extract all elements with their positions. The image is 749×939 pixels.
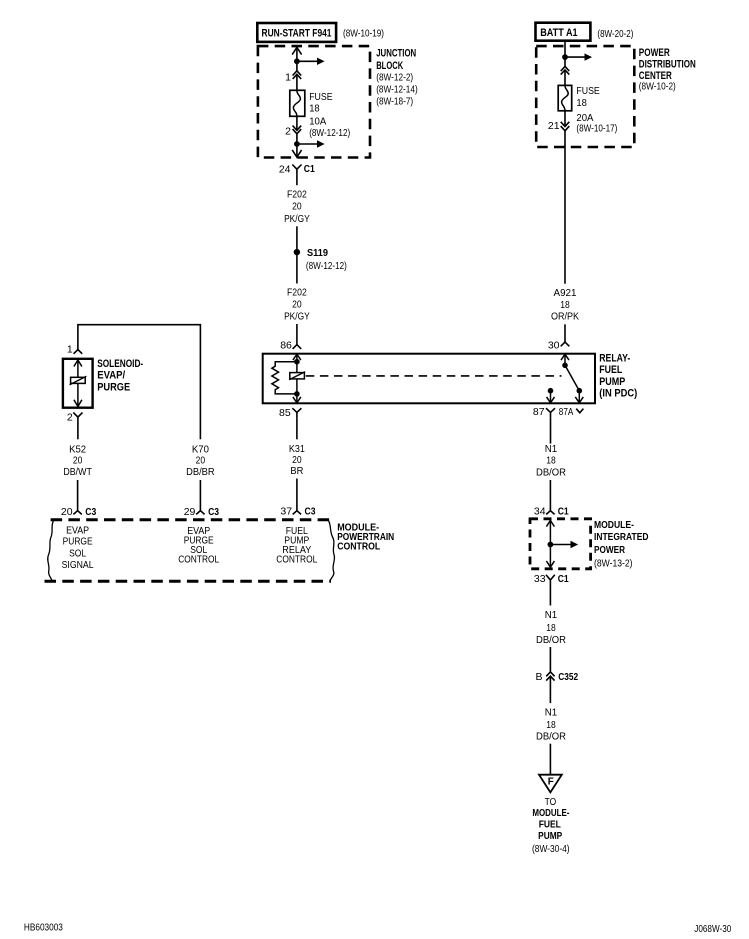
node FUEL PUMP RELAY CONTROL (276, 525, 317, 566)
svg-text:20: 20 (292, 201, 302, 213)
MIP arrow right (bus feed) (550, 541, 578, 548)
pin 37 / connector C3 (280, 505, 315, 517)
wire label K31 20 BR (289, 443, 305, 477)
wire (549, 744, 551, 775)
svg-text:24: 24 (279, 163, 291, 175)
svg-text:CONTROL: CONTROL (276, 554, 317, 566)
junction dot (coil bottom) (294, 391, 300, 397)
svg-text:CONTROL: CONTROL (178, 554, 219, 566)
svg-text:PURGE: PURGE (97, 381, 130, 393)
pin 20 / connector C3 (61, 506, 97, 518)
svg-text:87A: 87A (559, 406, 574, 418)
solenoid valve element (70, 376, 87, 385)
connector box RUN-START F941 (257, 23, 336, 42)
svg-text:EVAP/: EVAP/ (97, 370, 125, 382)
PDC dashed box (536, 46, 634, 147)
svg-text:MODULE-: MODULE- (594, 519, 634, 531)
pin 30 (548, 340, 569, 352)
svg-text:(8W-18-7): (8W-18-7) (376, 96, 413, 108)
label MODULE-POWERTRAIN CONTROL (337, 522, 394, 553)
svg-text:18: 18 (309, 103, 320, 115)
pin 34 / connector C1 (534, 506, 569, 518)
svg-text:(8W-12-2): (8W-12-2) (376, 71, 413, 83)
svg-text:20: 20 (292, 299, 302, 311)
svg-text:N1: N1 (545, 609, 558, 621)
fuse body (PDC) (558, 85, 572, 110)
svg-text:1: 1 (285, 72, 291, 84)
fuse value labels (309, 91, 350, 139)
wire (296, 324, 298, 345)
arrow right (bus feed) (565, 53, 592, 60)
svg-text:DB/WT: DB/WT (63, 466, 92, 478)
svg-text:C3: C3 (305, 505, 316, 517)
wire (296, 479, 298, 511)
svg-text:S119: S119 (307, 247, 328, 259)
resistor (relay internal) (272, 362, 297, 394)
label TO MODULE-FUEL PUMP (532, 796, 570, 855)
svg-text:C1: C1 (558, 506, 569, 518)
pin 29 / connector C3 (184, 506, 220, 518)
arrow right (bus feed) (297, 58, 325, 65)
junction dot (562, 54, 568, 60)
svg-text:(8W-30-4): (8W-30-4) (532, 843, 570, 855)
wire (549, 480, 551, 511)
svg-text:(8W-10-17): (8W-10-17) (576, 123, 617, 135)
pin 86 (280, 340, 301, 352)
svg-text:DB/OR: DB/OR (536, 634, 566, 646)
wire (549, 647, 551, 703)
wire (549, 587, 551, 606)
fuse value labels (576, 85, 617, 134)
pin 85 (279, 407, 301, 419)
wire label N1 18 DB/OR (536, 707, 566, 743)
svg-text:RUN-START F941: RUN-START F941 (262, 28, 332, 40)
label POWER DISTRIBUTION CENTER (639, 47, 696, 93)
svg-text:POWER: POWER (639, 47, 670, 59)
svg-text:BR: BR (290, 465, 303, 477)
svg-text:DB/OR: DB/OR (536, 731, 566, 743)
svg-text:2: 2 (67, 412, 73, 424)
wire (199, 480, 201, 511)
wire (296, 226, 298, 252)
svg-text:B: B (535, 671, 542, 683)
svg-text:DISTRIBUTION: DISTRIBUTION (639, 59, 696, 71)
arrow up to JB top edge (292, 47, 301, 61)
svg-text:(8W-10-19): (8W-10-19) (343, 27, 384, 39)
wire from BATT A1 (564, 41, 566, 57)
wire label K52 20 DB/WT (63, 443, 92, 478)
solenoid box (63, 359, 93, 408)
wire label F202 20 PK/GY (284, 189, 310, 225)
svg-text:BATT A1: BATT A1 (540, 27, 577, 39)
svg-text:86: 86 (280, 340, 292, 352)
svg-text:CONTROL: CONTROL (337, 540, 380, 552)
svg-text:PK/GY: PK/GY (284, 213, 310, 225)
pin 1 (solenoid) (67, 343, 82, 355)
svg-text:SIGNAL: SIGNAL (62, 559, 94, 571)
arrow right (bus feed) (297, 140, 325, 147)
svg-text:34: 34 (534, 506, 546, 518)
svg-text:30: 30 (548, 340, 560, 352)
svg-text:SOLENOID-: SOLENOID- (97, 358, 143, 370)
svg-text:C1: C1 (304, 163, 315, 175)
svg-text:N1: N1 (545, 443, 558, 455)
wire label A921 18 OR/PK (551, 287, 579, 323)
svg-text:33: 33 (534, 573, 546, 585)
svg-text:37: 37 (280, 505, 292, 517)
MIP internal: arrow down (546, 545, 554, 568)
entry arrow at pin 30 (561, 354, 569, 365)
arrow down to relay bottom edge (pin 85) (293, 394, 301, 403)
svg-text:20: 20 (196, 455, 206, 467)
svg-text:21: 21 (548, 120, 560, 132)
svg-text:C3: C3 (208, 506, 219, 518)
node EVAP PURGE SOL CONTROL (178, 525, 219, 566)
svg-text:SOL: SOL (69, 548, 86, 560)
label RELAY-FUEL PUMP (IN PDC) (599, 353, 637, 400)
pin 24 / connector C1 (279, 163, 315, 175)
label SOLENOID-EVAP/PURGE (97, 358, 143, 394)
wire (77, 422, 79, 440)
relay coil branch: entry arrow at pin 86 (293, 354, 301, 362)
solenoid internal: arrow up (74, 360, 82, 378)
svg-text:C352: C352 (558, 671, 578, 683)
svg-text:PK/GY: PK/GY (284, 311, 310, 323)
wire below relay pin 87 (550, 418, 552, 444)
svg-text:(IN PDC): (IN PDC) (599, 387, 637, 399)
pin B / connector C352 (in-line chevrons up) (535, 671, 578, 683)
junction dot (coil top) (294, 359, 300, 365)
junction block dashed box (258, 46, 370, 157)
svg-text:1: 1 (67, 343, 73, 355)
node EVAP PURGE SOL SIGNAL (62, 524, 94, 571)
svg-text:F202: F202 (287, 287, 307, 299)
wire (296, 116, 298, 144)
svg-text:MODULE-: MODULE- (532, 807, 569, 819)
svg-text:18: 18 (546, 622, 556, 634)
svg-text:18: 18 (576, 97, 587, 109)
arrow down to relay bottom (87A) (575, 391, 583, 403)
module-integrated power dashed box (530, 519, 591, 569)
label MODULE-INTEGRATED POWER (594, 519, 649, 569)
svg-text:(8W-12-12): (8W-12-12) (309, 127, 350, 139)
87 contact dot (548, 388, 554, 394)
PCM dashed top edge (51, 518, 331, 521)
svg-text:C3: C3 (85, 506, 96, 518)
fuse F941 body (290, 90, 305, 116)
svg-text:K70: K70 (192, 443, 209, 455)
svg-text:29: 29 (184, 506, 196, 518)
wire (77, 480, 79, 511)
svg-text:RELAY-: RELAY- (599, 353, 630, 365)
relay box (263, 354, 595, 404)
wire label N1 18 DB/OR (536, 443, 566, 479)
wire label N1 18 DB/OR (536, 609, 566, 646)
svg-text:FUEL: FUEL (599, 364, 622, 376)
wire (564, 57, 566, 85)
svg-text:F202: F202 (287, 189, 307, 201)
solenoid internal: arrow down (74, 383, 82, 406)
in-line connector chevrons (pin 1, up) (293, 71, 302, 79)
svg-text:(8W-20-2): (8W-20-2) (597, 28, 633, 40)
svg-text:20: 20 (61, 506, 73, 518)
wire label K70 20 DB/BR (186, 443, 215, 478)
svg-text:POWER: POWER (594, 544, 625, 556)
svg-text:N1: N1 (545, 707, 558, 719)
svg-text:BLOCK: BLOCK (376, 60, 403, 72)
svg-text:18: 18 (560, 299, 570, 311)
svg-text:(8W-10-2): (8W-10-2) (639, 81, 676, 93)
PCM dashed bottom edge (45, 580, 332, 583)
svg-text:10A: 10A (309, 116, 326, 128)
switch common dot (562, 363, 568, 369)
off-page connector triangle F (539, 775, 562, 793)
relay coil (289, 362, 305, 394)
svg-text:EVAP: EVAP (66, 524, 89, 536)
pin 33 / connector C1 (534, 573, 569, 587)
connector box BATT A1 (536, 23, 591, 41)
svg-text:J068W-30: J068W-30 (694, 923, 731, 935)
svg-text:INTEGRATED: INTEGRATED (594, 531, 649, 543)
arrow down to JB bottom edge (292, 144, 301, 157)
svg-text:HB603003: HB603003 (24, 921, 63, 933)
pin 87A (559, 406, 584, 418)
svg-text:PURGE: PURGE (63, 536, 93, 548)
svg-text:(8W-12-14): (8W-12-14) (376, 84, 418, 96)
svg-text:18: 18 (546, 455, 556, 467)
splice S119 (294, 247, 347, 272)
svg-text:20: 20 (73, 455, 83, 467)
svg-text:PUMP: PUMP (538, 830, 562, 842)
PCM torn right edge (328, 520, 334, 581)
svg-text:2: 2 (285, 125, 291, 137)
svg-text:PUMP: PUMP (599, 376, 625, 388)
junction dot (294, 141, 300, 147)
in-line connector chevrons (pin 2, down) (293, 126, 302, 134)
svg-text:A921: A921 (554, 287, 577, 299)
svg-text:DB/OR: DB/OR (536, 466, 566, 478)
87A contact dot (577, 388, 583, 394)
svg-text:85: 85 (279, 407, 291, 419)
svg-text:(8W-13-2): (8W-13-2) (594, 557, 633, 569)
switch blade to 87A (565, 365, 579, 390)
junction dot (294, 58, 300, 64)
svg-text:(8W-12-12): (8W-12-12) (306, 260, 347, 272)
MIP junction dot (548, 542, 554, 548)
svg-text:F: F (548, 775, 555, 787)
svg-text:18: 18 (546, 719, 556, 731)
wire label F202 20 PK/GY (284, 287, 310, 323)
in-line connector chevrons (up) (561, 66, 570, 74)
svg-text:K52: K52 (69, 443, 86, 455)
pin 2 (solenoid) (67, 412, 83, 424)
svg-text:OR/PK: OR/PK (551, 311, 579, 323)
dashed actuation line (306, 375, 562, 377)
MIP internal: arrow up (546, 520, 554, 544)
svg-text:FUEL: FUEL (539, 818, 562, 830)
wire (564, 324, 566, 342)
svg-text:DB/BR: DB/BR (186, 466, 215, 478)
PCM torn left edge (48, 520, 54, 581)
wire (296, 252, 298, 283)
wire (296, 175, 298, 186)
wire (564, 111, 566, 284)
pin 87 (533, 406, 555, 418)
wire K70 branch (top bus) (78, 325, 200, 440)
label JUNCTION BLOCK (376, 47, 418, 107)
wire (296, 61, 298, 90)
wire below relay pin 85 (296, 418, 298, 439)
svg-text:87: 87 (533, 406, 545, 418)
svg-text:JUNCTION: JUNCTION (376, 47, 416, 59)
svg-text:FUSE: FUSE (576, 85, 599, 97)
arrow down to relay bottom (87) (547, 391, 555, 403)
svg-text:C1: C1 (558, 573, 569, 585)
in-line connector chevrons (pin 21, down) (561, 122, 570, 131)
svg-text:FUSE: FUSE (309, 91, 332, 103)
